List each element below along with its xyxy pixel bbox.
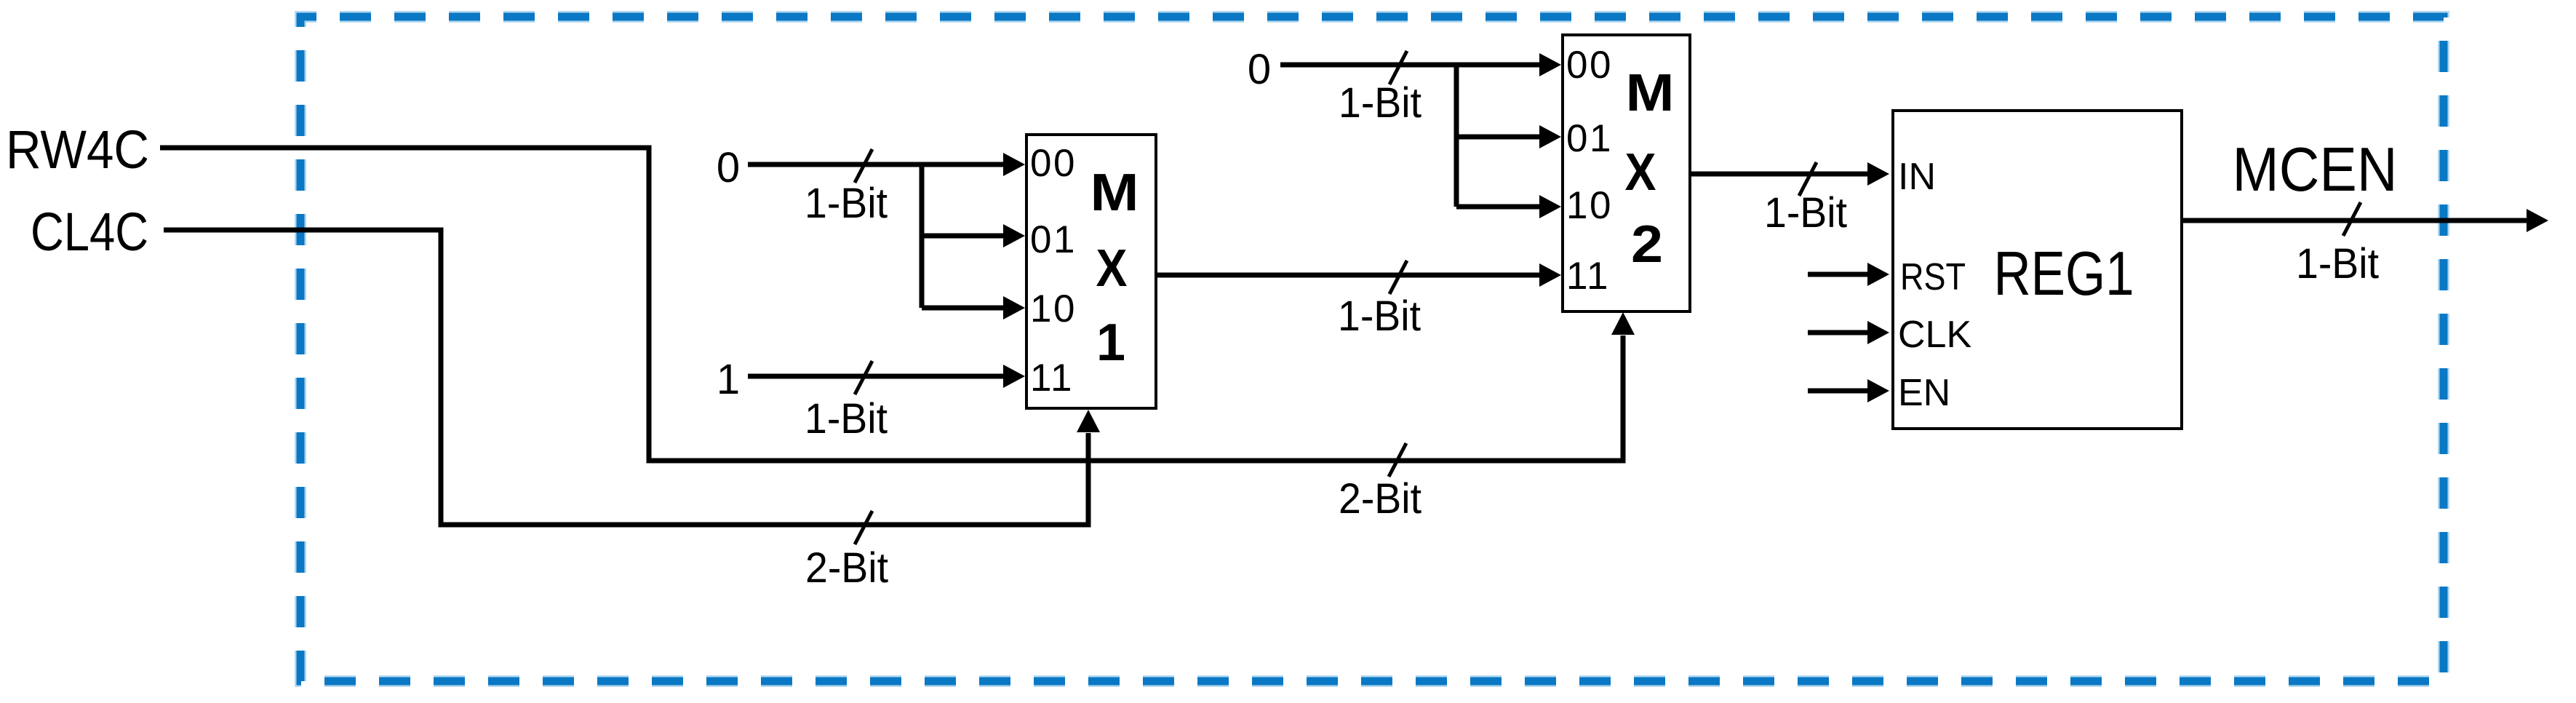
input label RW4C — [6, 119, 149, 180]
svg-text:0: 0 — [1248, 46, 1271, 93]
slash RW4C select bus — [1389, 443, 1406, 477]
bus width label 1-Bit (MX2 input 00) — [1339, 79, 1421, 127]
svg-text:1: 1 — [1096, 314, 1125, 372]
MX2 name 2 — [1631, 215, 1663, 274]
svg-text:MCEN: MCEN — [2233, 135, 2398, 204]
REG1 pin label EN — [1898, 372, 1950, 414]
MX1 pin label 01 — [1030, 218, 1077, 261]
dashed module boundary — [300, 17, 2444, 681]
wire CLK input — [1808, 321, 1889, 344]
slash CL4C select bus — [855, 511, 872, 544]
svg-text:REG1: REG1 — [1994, 239, 2134, 309]
wire 1 to MX1 input 11 — [748, 365, 1025, 388]
svg-text:CL4C: CL4C — [31, 202, 148, 262]
svg-text:EN: EN — [1898, 372, 1950, 414]
svg-text:1-Bit: 1-Bit — [805, 395, 888, 442]
constant 0 (MX1) — [717, 144, 740, 191]
svg-text:00: 00 — [1566, 44, 1613, 87]
svg-text:10: 10 — [1030, 287, 1077, 330]
wire MX2 output to REG1 IN — [1690, 162, 1889, 186]
mux MX1 box — [1026, 135, 1156, 408]
svg-text:2-Bit: 2-Bit — [805, 544, 888, 592]
svg-text:01: 01 — [1566, 117, 1613, 160]
register REG1 box — [1893, 111, 2182, 429]
svg-text:X: X — [1096, 239, 1128, 298]
svg-text:1-Bit: 1-Bit — [1338, 293, 1421, 340]
svg-text:10: 10 — [1566, 184, 1613, 227]
slash 1-wire MX1 — [855, 361, 872, 394]
MX1 name X — [1096, 239, 1128, 298]
wire 0 to MX1 input 00 — [748, 153, 1025, 176]
MX2 name X — [1625, 143, 1656, 202]
svg-text:IN: IN — [1898, 156, 1936, 198]
bus width label 1-Bit (MX1 input 11) — [805, 395, 888, 442]
svg-text:RST: RST — [1900, 256, 1966, 298]
svg-text:11: 11 — [1566, 255, 1610, 298]
wire branch to MX1 inputs 01 and 10 — [922, 162, 1025, 319]
MX2 pin label 10 — [1566, 184, 1613, 227]
svg-text:01: 01 — [1030, 218, 1077, 261]
MX2 pin label 11 — [1566, 255, 1610, 298]
bus width label 1-Bit (MX1 to MX2) — [1338, 293, 1421, 340]
constant 1 (MX1) — [717, 356, 740, 403]
REG1 pin label IN — [1898, 156, 1936, 198]
svg-text:M: M — [1626, 64, 1675, 122]
MX1 pin label 10 — [1030, 287, 1077, 330]
slash 0-wire MX1 — [855, 149, 872, 183]
wire MCEN output — [2182, 209, 2548, 232]
svg-text:0: 0 — [717, 144, 740, 191]
bus width label 1-Bit (MCEN) — [2296, 240, 2379, 287]
MX1 name M — [1090, 164, 1139, 222]
constant 0 (MX2) — [1248, 46, 1271, 93]
wire EN input — [1808, 379, 1889, 402]
slash 0-wire MX2 — [1389, 51, 1407, 84]
MX2 pin label 00 — [1566, 44, 1613, 87]
svg-text:1-Bit: 1-Bit — [1339, 79, 1421, 127]
MX2 pin label 01 — [1566, 117, 1613, 160]
svg-text:1-Bit: 1-Bit — [2296, 240, 2379, 287]
svg-text:1: 1 — [717, 356, 740, 403]
REG1 pin label RST — [1900, 256, 1966, 298]
svg-text:2-Bit: 2-Bit — [1339, 475, 1421, 523]
input label CL4C — [31, 202, 148, 262]
svg-text:00: 00 — [1030, 142, 1077, 185]
bus width label 2-Bit (MX2 select) — [1339, 475, 1421, 523]
dashed module boundary halo — [300, 17, 2444, 681]
wire MX1 output to MX2 input 11 — [1156, 263, 1561, 287]
mux MX2 box — [1563, 35, 1690, 311]
slash MCEN output — [2343, 202, 2361, 236]
MX2 name M — [1626, 64, 1675, 122]
svg-text:RW4C: RW4C — [6, 119, 149, 180]
wire CL4C to MX1 select — [164, 230, 1100, 525]
svg-text:1-Bit: 1-Bit — [805, 180, 888, 227]
bus width label 1-Bit (MX1 input 00) — [805, 180, 888, 227]
REG1 pin label CLK — [1898, 314, 1971, 356]
svg-text:M: M — [1090, 164, 1139, 222]
REG1 name — [1994, 239, 2134, 309]
wire 0 to MX2 input 00 — [1280, 53, 1561, 76]
wire branch to MX2 inputs 01 and 10 — [1456, 63, 1561, 218]
svg-text:2: 2 — [1631, 215, 1663, 274]
bus width label 1-Bit (MX2 to REG1) — [1764, 189, 1847, 237]
MX1 name 1 — [1096, 314, 1125, 372]
output label MCEN — [2233, 135, 2398, 204]
slash MX2 output — [1799, 162, 1817, 196]
slash MX1 output — [1389, 261, 1407, 294]
wire RST input — [1808, 263, 1889, 286]
wire RW4C to MX2 select — [160, 148, 1635, 461]
svg-text:X: X — [1625, 143, 1656, 202]
MX1 pin label 11 — [1030, 357, 1074, 400]
svg-text:11: 11 — [1030, 357, 1074, 400]
MX1 pin label 00 — [1030, 142, 1077, 185]
svg-text:CLK: CLK — [1898, 314, 1971, 356]
bus width label 2-Bit (MX1 select) — [805, 544, 888, 592]
svg-text:1-Bit: 1-Bit — [1764, 189, 1847, 237]
